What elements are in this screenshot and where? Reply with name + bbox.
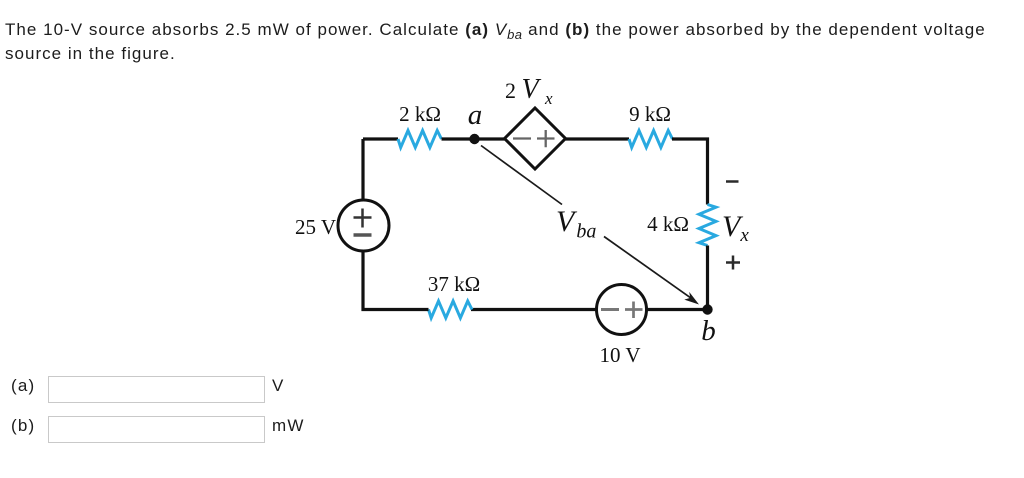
25V plus sign <box>354 209 372 228</box>
wire resistor to node a to diamond <box>442 137 505 140</box>
arrow Vba segment 1 <box>481 146 562 205</box>
resistor R 37k zigzag <box>429 301 472 318</box>
answer box a <box>48 376 265 403</box>
resistor R 2k zigzag <box>398 131 441 148</box>
dependent source U1 diamond <box>505 108 566 169</box>
svg-text:25 V: 25 V <box>295 215 336 239</box>
svg-text:2 kΩ: 2 kΩ <box>399 102 441 126</box>
problem statement text <box>5 18 986 65</box>
minus sign polarity Vx <box>726 180 739 183</box>
wire top-left segment <box>363 137 398 140</box>
wire 10V to 37k <box>471 308 597 311</box>
arrow Vba segment 2 with head <box>604 237 692 299</box>
wire 9k to top-right corner down to 4k <box>672 139 708 205</box>
wire 37k to bottom-left corner <box>363 251 429 310</box>
10V minus sign <box>601 308 619 311</box>
answer row b label <box>11 416 35 436</box>
diamond minus sign <box>513 137 531 139</box>
svg-text:10 V: 10 V <box>599 343 640 367</box>
wire diamond to 9k <box>566 137 630 140</box>
wire node b to 10V source <box>647 308 708 311</box>
svg-text:b: b <box>701 315 716 347</box>
answer box b <box>48 416 265 443</box>
svg-text:2 Vx: 2 Vx <box>505 74 553 108</box>
10V plus sign <box>625 302 643 319</box>
node b dot <box>702 304 712 314</box>
svg-text:Vx: Vx <box>722 210 749 246</box>
resistor R 9k zigzag <box>629 131 672 148</box>
svg-text:a: a <box>468 99 483 131</box>
unit V <box>272 376 285 396</box>
svg-text:Vba: Vba <box>556 205 596 243</box>
25V minus sign <box>354 233 372 237</box>
wire 4k to node b <box>706 246 709 310</box>
voltage source V2 10V circle <box>597 285 647 335</box>
diamond plus sign <box>537 130 555 147</box>
resistor R 4k vertical zigzag <box>699 205 716 246</box>
node a dot <box>469 134 479 144</box>
plus sign polarity Vx <box>726 256 740 270</box>
svg-text:9 kΩ: 9 kΩ <box>629 102 671 126</box>
voltage source V1 25V circle <box>338 200 389 251</box>
unit mW <box>272 416 305 436</box>
answer row a label <box>11 376 35 396</box>
svg-text:4 kΩ: 4 kΩ <box>647 212 689 236</box>
svg-text:37 kΩ: 37 kΩ <box>428 272 480 296</box>
wire 25V up to top-left corner <box>361 139 364 200</box>
